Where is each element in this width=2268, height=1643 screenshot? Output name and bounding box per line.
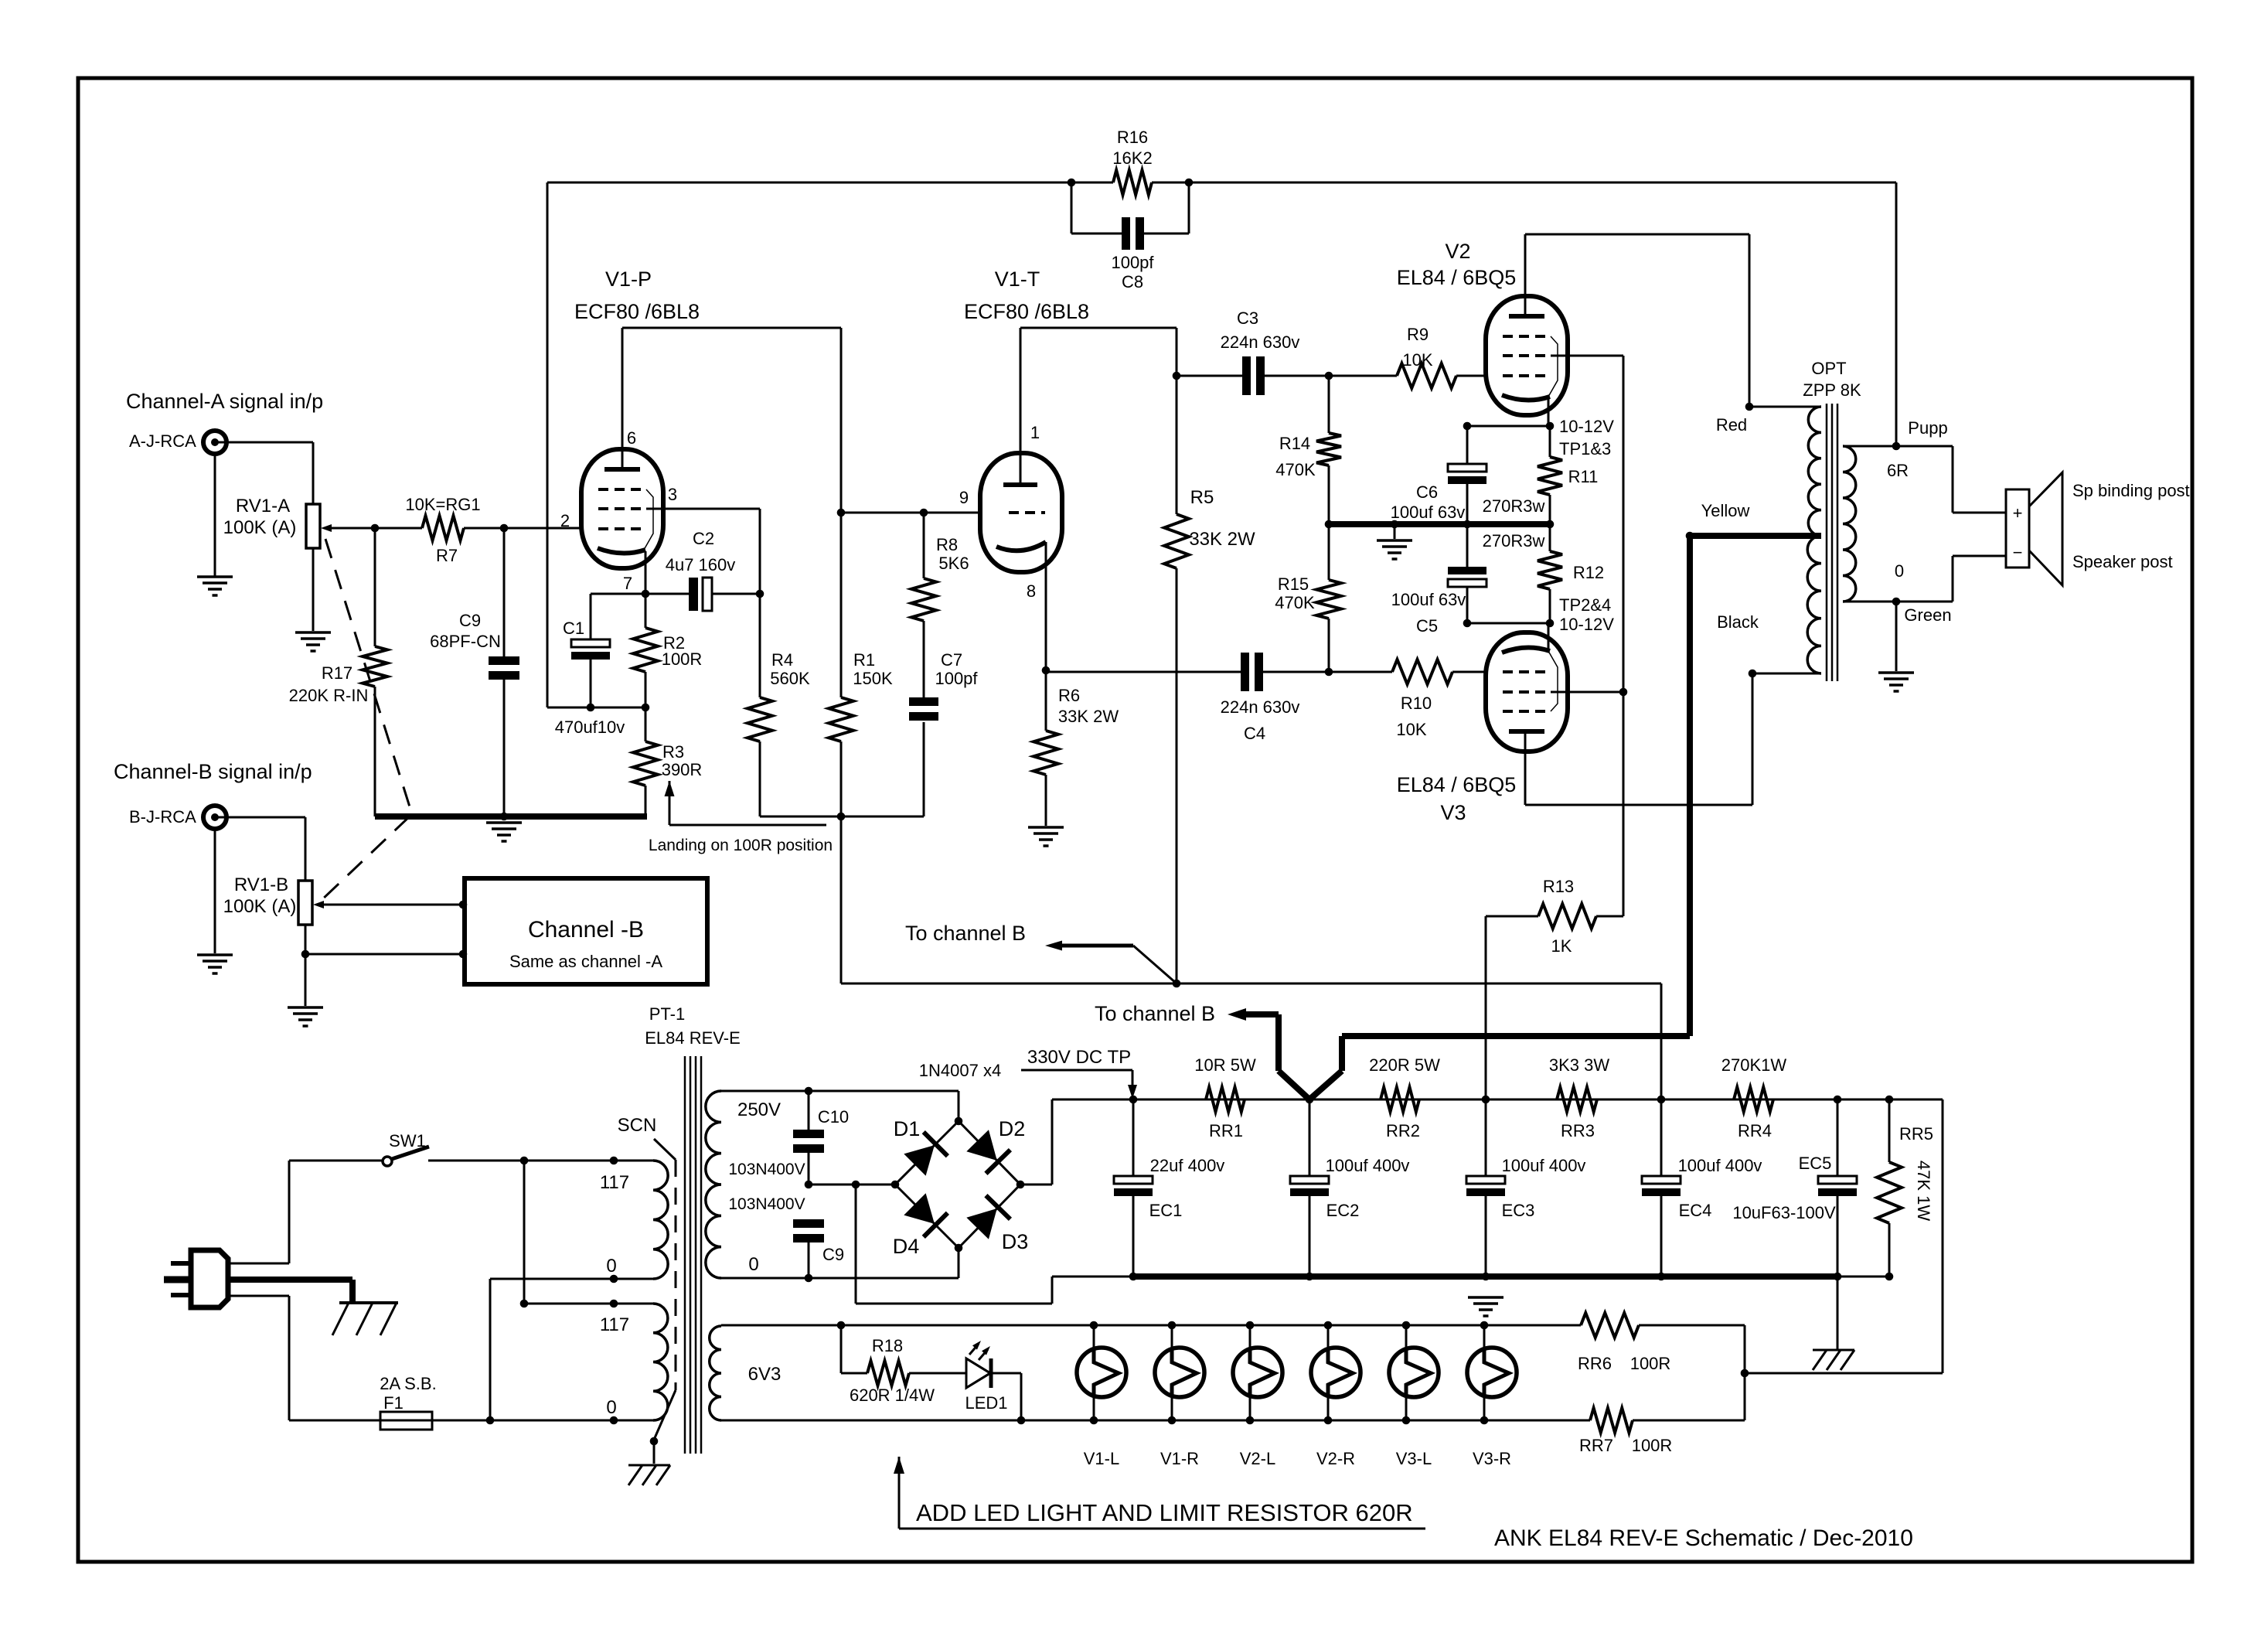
label 270R3w (R11)	[1483, 496, 1545, 516]
svg-text:100uf 400v: 100uf 400v	[1678, 1156, 1762, 1175]
resistor R13	[1486, 904, 1623, 1099]
label R9	[1407, 325, 1429, 344]
svg-text:150K: 150K	[853, 669, 893, 688]
diode D2	[959, 1121, 1020, 1185]
svg-text:330V DC TP: 330V DC TP	[1027, 1047, 1131, 1068]
resistor R11	[1538, 426, 1562, 524]
svg-text:RR2: RR2	[1386, 1121, 1420, 1140]
label 100uf 63v (C5)	[1391, 590, 1466, 609]
svg-text:10-12V: 10-12V	[1559, 615, 1614, 634]
svg-text:ZPP 8K: ZPP 8K	[1803, 380, 1861, 400]
svg-text:R11: R11	[1568, 467, 1599, 486]
capacitor C10	[793, 1091, 824, 1185]
label R7	[436, 546, 458, 565]
label 220R 5W	[1369, 1055, 1440, 1075]
tube V2	[1486, 296, 1568, 415]
heater lamp V3-L	[1389, 1321, 1439, 1425]
resistor R1	[829, 513, 853, 816]
svg-text:Sp binding post: Sp binding post	[2072, 481, 2190, 500]
junction pin7	[642, 590, 650, 598]
junction R11/R12	[1546, 520, 1555, 529]
note arrow landing	[665, 781, 827, 825]
svg-text:6: 6	[627, 428, 636, 448]
svg-text:0: 0	[748, 1254, 758, 1275]
junction LED bottom	[1017, 1416, 1026, 1425]
svg-text:+: +	[2013, 503, 2023, 523]
svg-text:EL84 / 6BQ5: EL84 / 6BQ5	[1397, 266, 1517, 289]
svg-text:100uf 400v: 100uf 400v	[1502, 1156, 1586, 1175]
svg-text:V2-L: V2-L	[1240, 1449, 1275, 1468]
label RR4	[1738, 1121, 1772, 1140]
resistor R10	[1392, 660, 1485, 684]
label V1-R	[1160, 1449, 1199, 1468]
junction EC4 top	[1657, 1096, 1666, 1104]
capacitor EC4 (100uf 400v)	[1642, 1099, 1681, 1277]
svg-text:R15: R15	[1278, 574, 1309, 594]
switch SW1	[383, 1147, 429, 1166]
svg-text:390R: 390R	[662, 760, 703, 779]
wire grid row to V1-T	[841, 512, 980, 514]
svg-text:R3: R3	[662, 742, 684, 762]
label 68PF-CN	[430, 632, 501, 651]
label R2	[663, 633, 685, 653]
svg-text:Speaker post: Speaker post	[2072, 552, 2173, 571]
svg-text:R6: R6	[1058, 686, 1080, 705]
label D2	[999, 1117, 1026, 1140]
label D3	[1002, 1230, 1029, 1253]
svg-text:C3: C3	[1237, 308, 1258, 328]
svg-text:33K 2W: 33K 2W	[1058, 707, 1119, 726]
junction C10 top	[805, 1087, 813, 1096]
svg-text:Black: Black	[1717, 612, 1759, 632]
label 220K R-IN	[289, 686, 369, 705]
wire to speaker minus	[1953, 556, 2006, 602]
primary terminal dot 117a	[610, 1157, 618, 1165]
diode D3	[959, 1185, 1020, 1248]
svg-text:C9: C9	[822, 1245, 844, 1264]
label ADD LED LIGHT AND LIMIT RESISTOR 620R	[916, 1499, 1413, 1526]
label 390R	[662, 760, 703, 779]
ground (RCA-A)	[197, 577, 233, 595]
junction R16 right	[1185, 179, 1194, 187]
label Landing on 100R position	[649, 837, 833, 854]
svg-text:103N400V: 103N400V	[728, 1195, 805, 1213]
label D4	[893, 1235, 920, 1258]
svg-text:RR5: RR5	[1899, 1124, 1933, 1144]
svg-text:6V3: 6V3	[748, 1364, 782, 1385]
label 100uf 400v (EC4)	[1678, 1156, 1762, 1175]
pin 2 label	[560, 511, 570, 530]
junction R18 tap	[837, 1321, 846, 1330]
junction heater CT	[1741, 1369, 1749, 1378]
svg-text:SW1: SW1	[389, 1131, 426, 1150]
svg-text:Yellow: Yellow	[1701, 501, 1750, 520]
svg-text:EC2: EC2	[1326, 1201, 1360, 1220]
junction RR5 bottom	[1885, 1273, 1894, 1281]
wire RV1-B bottom	[305, 925, 463, 1006]
junction bridge bottom	[955, 1244, 963, 1253]
label V2-R	[1316, 1449, 1355, 1468]
wire V1-P plate to top rail	[621, 328, 624, 467]
OPT primary winding	[1807, 407, 1821, 673]
svg-text:270R3w: 270R3w	[1483, 496, 1545, 516]
svg-text:620R 1/4W: 620R 1/4W	[850, 1386, 935, 1405]
label 100pf (C7)	[935, 669, 978, 688]
svg-text:9: 9	[959, 488, 969, 507]
label 100K (A) (B)	[223, 896, 297, 917]
PT-1 HV winding	[706, 1091, 721, 1278]
svg-text:100K (A): 100K (A)	[223, 896, 297, 917]
svg-text:100R: 100R	[1630, 1354, 1671, 1373]
wire bias gnd stub	[1394, 524, 1396, 539]
svg-text:0: 0	[606, 1256, 616, 1277]
capacitor C9 (power)	[793, 1219, 824, 1278]
label C9	[459, 611, 481, 630]
wire heater CT	[1744, 1325, 1746, 1420]
svg-text:ECF80 /6BL8: ECF80 /6BL8	[574, 300, 700, 323]
label 33K 2W (R5)	[1189, 529, 1255, 550]
svg-text:68PF-CN: 68PF-CN	[430, 632, 501, 651]
label RV1-A	[236, 496, 290, 516]
resistor R18	[841, 1325, 966, 1386]
label ECF80 /6BL8 (V1-T)	[964, 300, 1089, 323]
label 470K (R15)	[1275, 593, 1315, 612]
label 10K (R9)	[1402, 350, 1432, 370]
label R11	[1568, 467, 1599, 486]
svg-text:100pf: 100pf	[935, 669, 978, 688]
capacitor C6 (100uf 63v)	[1448, 426, 1486, 524]
junction C2 right	[756, 590, 765, 598]
junction Red	[1745, 403, 1754, 411]
label 117 (upper)	[600, 1172, 629, 1193]
svg-text:10K=RG1: 10K=RG1	[405, 495, 480, 514]
supply rail	[1052, 1099, 1943, 1101]
label ZPP 8K	[1803, 380, 1861, 400]
svg-text:−: −	[2013, 543, 2023, 562]
ground bus (thick, supply)	[1133, 1273, 1837, 1280]
wire secondary bottom	[1843, 601, 1953, 603]
wire RR5 bottom	[1837, 1276, 1889, 1278]
label Black	[1717, 612, 1759, 632]
label 103N400V (C10)	[728, 1161, 805, 1178]
capacitor EC1 (22uf 400v)	[1114, 1099, 1153, 1277]
wire C3 to R9	[1329, 375, 1397, 377]
label 1N4007 x4	[919, 1061, 1001, 1080]
label EC4	[1679, 1201, 1712, 1220]
svg-text:3K3 3W: 3K3 3W	[1549, 1055, 1609, 1075]
thick B+ path	[1228, 536, 1690, 1099]
pin 1 label	[1030, 423, 1040, 442]
svg-text:RR3: RR3	[1561, 1121, 1595, 1140]
label RR2	[1386, 1121, 1420, 1140]
label V3-L	[1396, 1449, 1432, 1468]
label 100uf 400v (EC2)	[1326, 1156, 1410, 1175]
junction EC5 bottom	[1834, 1273, 1842, 1281]
label 16K2	[1112, 148, 1152, 168]
ground (OPT 0)	[1878, 673, 1914, 691]
svg-text:2A S.B.: 2A S.B.	[380, 1374, 436, 1393]
resistor R4	[747, 594, 772, 816]
label RR5	[1899, 1124, 1933, 1144]
svg-text:R12: R12	[1573, 563, 1604, 582]
label To channel B (upper)	[905, 922, 1026, 945]
svg-text:To channel B: To channel B	[905, 922, 1026, 945]
svg-text:103N400V: 103N400V	[728, 1161, 805, 1178]
label To channel B (lower)	[1095, 1002, 1215, 1025]
label 117 (lower)	[600, 1314, 629, 1335]
svg-text:100uf 63v: 100uf 63v	[1391, 503, 1466, 522]
wire RCA-B to pot	[215, 817, 305, 881]
svg-text:RR1: RR1	[1209, 1121, 1243, 1140]
label 10-12V (TP1&3)	[1559, 417, 1614, 436]
note arrow To channel B (upper)	[1045, 941, 1177, 984]
svg-text:D3: D3	[1002, 1230, 1029, 1253]
resistor R16	[1071, 170, 1189, 195]
label C9 (power)	[822, 1245, 844, 1264]
svg-text:100pf: 100pf	[1111, 253, 1154, 272]
junction R5/C3	[1173, 372, 1181, 380]
svg-text:R14: R14	[1279, 434, 1310, 453]
label LED1	[965, 1393, 1007, 1413]
junction EC3 bottom	[1482, 1273, 1490, 1281]
wire RV1-B wiper	[313, 901, 463, 908]
svg-text:220K R-IN: 220K R-IN	[289, 686, 369, 705]
pin 7 label	[623, 574, 632, 593]
wire RCA-A to pot	[215, 442, 313, 504]
svg-text:EC3: EC3	[1502, 1201, 1535, 1220]
wire to lower 117	[520, 1161, 653, 1307]
svg-text:R13: R13	[1543, 877, 1574, 896]
label F1	[383, 1393, 404, 1413]
junction TP2-4	[1546, 619, 1555, 628]
heater lamp V2-R	[1311, 1321, 1360, 1425]
svg-text:V1-R: V1-R	[1160, 1449, 1199, 1468]
svg-text:Pupp: Pupp	[1908, 418, 1947, 438]
svg-text:C1: C1	[563, 619, 584, 638]
label R6	[1058, 686, 1080, 705]
svg-text:10R 5W: 10R 5W	[1194, 1055, 1256, 1075]
junction Black	[1749, 670, 1757, 678]
AC plug	[164, 1250, 228, 1307]
svg-text:Same as channel -A: Same as channel -A	[509, 952, 662, 971]
wire B+ node segment	[760, 722, 924, 983]
wire B+ EC4 node	[841, 983, 1661, 1099]
svg-text:V1-L: V1-L	[1084, 1449, 1119, 1468]
wire HV top to bridge	[721, 1091, 959, 1121]
label R3	[662, 742, 684, 762]
ganged-pot dashed link	[320, 539, 412, 902]
svg-text:224n 630v: 224n 630v	[1221, 697, 1300, 717]
label V2	[1445, 240, 1470, 263]
resistor R8	[911, 513, 936, 697]
wire SW1 to primary	[428, 1160, 653, 1162]
label 10K=RG1	[405, 495, 480, 514]
heater lamp V3-R	[1467, 1321, 1517, 1425]
junction RR1/RR2	[1306, 1096, 1314, 1104]
junction R8 top	[920, 509, 928, 517]
LED LED1	[966, 1341, 1021, 1420]
junction C1 bottom	[587, 704, 595, 712]
svg-text:R17: R17	[322, 663, 352, 683]
label 10R 5W	[1194, 1055, 1256, 1075]
junction wiper box	[459, 901, 468, 909]
capacitor C4 (224n 630v)	[1046, 653, 1329, 691]
label TP1&3	[1559, 439, 1611, 458]
label speaker minus	[2013, 543, 2023, 562]
label 6V3	[748, 1364, 782, 1385]
junction primary feeds	[520, 1157, 529, 1165]
wire V1-P cathode row	[591, 551, 689, 594]
label R1	[853, 650, 875, 670]
wire V3 plate to Black	[1525, 673, 1752, 805]
svg-text:V1-P: V1-P	[605, 268, 652, 291]
label V2-L	[1240, 1449, 1275, 1468]
svg-text:R18: R18	[872, 1336, 903, 1355]
resistor R12	[1538, 524, 1562, 623]
label 560K	[770, 669, 810, 688]
chassis ground (SCN)	[628, 1465, 670, 1485]
pin 9 label	[959, 488, 969, 507]
svg-text:100K (A): 100K (A)	[223, 517, 297, 538]
svg-text:V3: V3	[1440, 801, 1466, 824]
label R15	[1278, 574, 1309, 594]
label R8	[936, 535, 958, 554]
svg-text:TP2&4: TP2&4	[1559, 595, 1611, 615]
svg-text:R7: R7	[436, 546, 458, 565]
svg-text:0: 0	[1895, 561, 1904, 581]
svg-text:V1-T: V1-T	[995, 268, 1040, 291]
label C3	[1237, 308, 1258, 328]
resistor RR7	[1590, 1408, 1745, 1433]
capacitor C7 (100pf)	[909, 697, 938, 721]
RCA jack B-J-RCA	[203, 806, 226, 829]
PT-1 primary winding lower	[653, 1304, 668, 1420]
label R18	[872, 1336, 903, 1355]
svg-text:224n 630v: 224n 630v	[1221, 332, 1300, 352]
label RR6 100R	[1578, 1354, 1670, 1373]
OPT secondary winding	[1843, 446, 1856, 602]
label 0 (upper)	[606, 1256, 616, 1277]
junction bridge left	[891, 1181, 900, 1189]
tube V3	[1486, 632, 1568, 752]
junction Pupp	[1892, 442, 1901, 451]
wire feedback vertical x708	[547, 182, 549, 707]
label EC1	[1149, 1201, 1183, 1220]
svg-text:Channel -B: Channel -B	[528, 917, 644, 943]
heater rail top	[721, 1324, 1581, 1327]
label 100R	[662, 649, 703, 669]
label 5K6	[938, 554, 969, 573]
label TP2&4	[1559, 595, 1611, 615]
wire to speaker plus	[1953, 446, 2006, 513]
speaker	[2006, 472, 2062, 585]
svg-text:10K: 10K	[1396, 720, 1426, 739]
svg-text:RR4: RR4	[1738, 1121, 1772, 1140]
capacitor C5 (100uf 63v)	[1448, 524, 1486, 623]
label R16	[1117, 128, 1148, 147]
wire fuse to primary 0	[432, 1420, 653, 1422]
svg-text:Green: Green	[1904, 605, 1951, 625]
wire C8 loop	[1071, 182, 1189, 233]
junction RR5 top	[1885, 1096, 1894, 1104]
svg-text:8: 8	[1027, 581, 1036, 601]
PT-1 heater winding	[710, 1326, 721, 1420]
label V1-T	[995, 268, 1040, 291]
resistor RR5	[1877, 1099, 1902, 1277]
resistor RR1	[1206, 1087, 1245, 1112]
label Same as channel -A	[509, 952, 662, 971]
svg-text:270R3w: 270R3w	[1483, 531, 1545, 551]
svg-text:1: 1	[1030, 423, 1040, 442]
wire mid to bridge left	[809, 1184, 895, 1186]
svg-text:560K: 560K	[770, 669, 810, 688]
wire RCA-B ground stem	[214, 829, 216, 953]
svg-text:To channel B: To channel B	[1095, 1002, 1215, 1025]
label Channel -B	[528, 917, 644, 943]
label speaker plus	[2013, 503, 2023, 523]
label 620R 1/4W	[850, 1386, 935, 1405]
svg-text:V3-R: V3-R	[1473, 1449, 1511, 1468]
svg-text:RR6: RR6	[1578, 1354, 1612, 1373]
junction box gnd	[459, 950, 468, 959]
svg-text:117: 117	[600, 1172, 629, 1193]
svg-text:470K: 470K	[1275, 460, 1316, 479]
label EL84 REV-E	[645, 1028, 741, 1048]
label V3	[1440, 801, 1466, 824]
resistor RR6	[1581, 1313, 1745, 1338]
potentiometer RV1-A	[306, 504, 320, 548]
svg-text:ECF80 /6BL8: ECF80 /6BL8	[964, 300, 1089, 323]
junction EC1	[1129, 1096, 1138, 1104]
svg-text:22uf 400v: 22uf 400v	[1150, 1156, 1225, 1175]
svg-text:C2: C2	[693, 529, 714, 548]
capacitor EC5 (10uF63-100V)	[1818, 1099, 1857, 1277]
wire R7 to V1-P grid pin2	[464, 527, 581, 530]
diode D1	[895, 1121, 959, 1185]
ground (bus)	[486, 823, 522, 841]
svg-text:5K6: 5K6	[938, 554, 969, 573]
primary terminal dot 0a	[610, 1275, 618, 1283]
label R17	[322, 663, 352, 683]
wire V1-T plate	[1020, 328, 1022, 483]
resistor R14	[1316, 376, 1341, 524]
label SCN	[618, 1115, 657, 1136]
svg-text:C5: C5	[1416, 616, 1438, 636]
wire plug earth	[228, 1280, 352, 1301]
svg-text:4u7 160v: 4u7 160v	[666, 555, 736, 574]
chassis ground (supply)	[1813, 1350, 1854, 1370]
resistor R17	[363, 528, 387, 816]
wire V2 cathode lead	[1548, 397, 1550, 426]
label 250V	[737, 1099, 781, 1120]
chassis ground (plug)	[332, 1303, 398, 1335]
label EC2	[1326, 1201, 1360, 1220]
wire RCA-A ground stem	[214, 454, 216, 577]
label 10K (R10)	[1396, 720, 1426, 739]
label 10uF63-100V	[1732, 1203, 1836, 1222]
label D1	[894, 1117, 921, 1140]
wire bridge minus	[856, 1185, 1133, 1304]
label V1-L	[1084, 1449, 1119, 1468]
svg-text:R1: R1	[853, 650, 875, 670]
svg-text:B-J-RCA: B-J-RCA	[129, 807, 196, 827]
label EC3	[1502, 1201, 1535, 1220]
junction C9 bottom	[805, 1274, 813, 1283]
ground bus (thick, input section)	[375, 813, 647, 820]
junction R16 left	[1068, 179, 1076, 187]
wire Black lead	[1752, 673, 1821, 675]
label RV1-B	[234, 874, 288, 895]
